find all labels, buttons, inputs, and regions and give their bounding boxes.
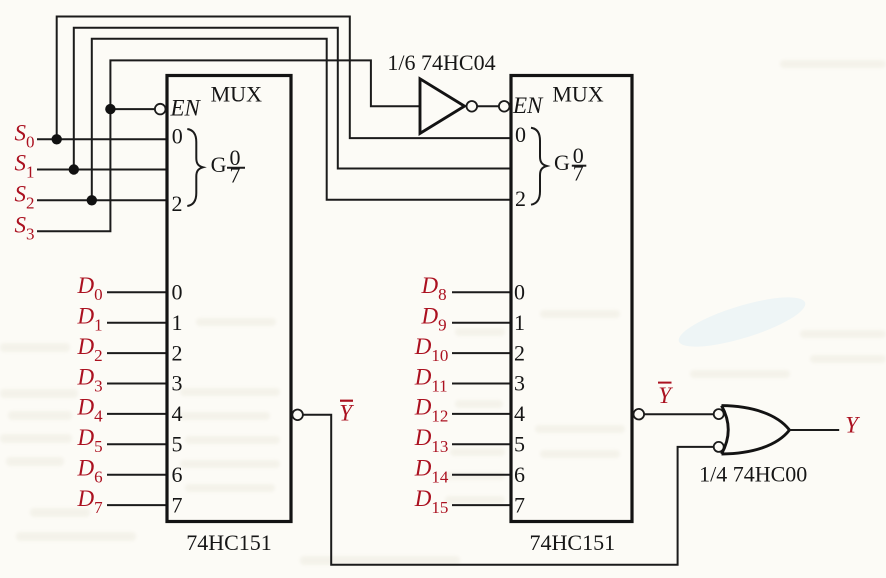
U2 G 0/7 label <box>554 143 586 185</box>
svg-text:0: 0 <box>514 280 525 305</box>
svg-text:MUX: MUX <box>552 82 603 107</box>
wire S2 input stub <box>37 199 166 201</box>
U2 EN bubble <box>499 101 510 112</box>
svg-text:0: 0 <box>172 123 183 148</box>
label D5 <box>77 425 103 456</box>
svg-text:1: 1 <box>172 310 183 335</box>
label 1/6 74HC04 <box>387 50 495 75</box>
svg-text:2: 2 <box>515 186 526 211</box>
U1 part number label 74HC151 <box>186 530 272 555</box>
label D11 <box>414 364 448 395</box>
U1 MUX label <box>211 82 262 107</box>
U2 MUX label <box>552 82 603 107</box>
wire NAND output <box>790 429 840 431</box>
svg-text:6: 6 <box>514 462 525 487</box>
svg-text:1/4 74HC00: 1/4 74HC00 <box>699 462 807 487</box>
wire D10 stub <box>452 352 510 354</box>
svg-text:MUX: MUX <box>211 82 262 107</box>
wire U1 Ybar to NAND lower input <box>303 415 714 565</box>
label D14 <box>414 456 449 487</box>
wire S1 input stub <box>37 169 166 171</box>
U1 G 0/7 label <box>211 145 245 188</box>
U1 data pin labels 0-7 <box>172 280 183 518</box>
U1 EN bubble <box>155 104 166 115</box>
wire S3 branch to U1 EN <box>110 108 154 110</box>
svg-text:3: 3 <box>172 371 183 396</box>
svg-text:7: 7 <box>514 492 525 517</box>
label D4 <box>77 395 104 426</box>
svg-text:5: 5 <box>172 432 183 457</box>
wire D5 stub <box>107 443 166 445</box>
junction S3/EN <box>105 104 115 114</box>
wire S3 run to inverter <box>37 60 420 231</box>
U2 EN pin label <box>512 93 544 118</box>
label S2 <box>15 182 35 213</box>
wire D6 stub <box>107 474 166 476</box>
label D12 <box>414 395 449 426</box>
svg-text:G: G <box>554 150 570 175</box>
wire D9 stub <box>452 322 510 324</box>
label D2 <box>77 334 103 365</box>
label D7 <box>77 486 104 517</box>
U2 data pin labels 0-7 <box>514 280 525 518</box>
label D1 <box>77 304 103 335</box>
label D6 <box>77 456 103 487</box>
label D8 <box>421 273 447 304</box>
label Y (final output) <box>845 412 860 437</box>
wire D3 stub <box>107 383 166 385</box>
svg-text:4: 4 <box>172 401 183 426</box>
wire D13 stub <box>452 443 510 445</box>
inverter U3 (1/6 74HC04) <box>420 79 465 134</box>
mux U2 (74HC151) box <box>511 76 632 522</box>
wire S1 run to U2 pin 1 <box>74 28 510 170</box>
NAND gate U4 input bubble lower <box>714 442 724 452</box>
svg-text:0: 0 <box>515 122 526 147</box>
wire D8 stub <box>452 291 510 293</box>
U1 select brace <box>187 129 203 206</box>
svg-text:74HC151: 74HC151 <box>530 530 616 555</box>
wire S2 run to U2 pin 2 <box>92 39 510 201</box>
svg-text:7: 7 <box>230 163 241 188</box>
label 1/4 74HC00 <box>699 462 807 487</box>
wire D12 stub <box>452 413 510 415</box>
label Ybar (U1 output) <box>339 400 354 425</box>
wire inverter to U2 EN <box>477 105 499 107</box>
svg-text:2: 2 <box>172 191 183 216</box>
svg-text:Y: Y <box>339 400 354 425</box>
svg-text:7: 7 <box>573 160 584 185</box>
wire D14 stub <box>452 474 510 476</box>
label D0 <box>77 273 103 304</box>
label D13 <box>414 425 449 456</box>
svg-text:3: 3 <box>514 371 525 396</box>
U2 select pin 2 label <box>515 186 526 211</box>
svg-text:6: 6 <box>172 462 183 487</box>
junction S2 <box>87 195 97 205</box>
wire D15 stub <box>452 504 510 506</box>
svg-text:2: 2 <box>172 340 183 365</box>
wire U2 Ybar to NAND upper input <box>644 413 714 415</box>
svg-text:1: 1 <box>514 310 525 335</box>
U2 select pin 0 label <box>515 122 526 147</box>
U2 part number label 74HC151 <box>530 530 616 555</box>
label S1 <box>15 151 35 182</box>
label D15 <box>414 486 449 517</box>
wire D0 stub <box>107 291 166 293</box>
wire D1 stub <box>107 322 166 324</box>
U2 select brace <box>531 128 547 205</box>
label D9 <box>421 304 447 335</box>
svg-text:G: G <box>211 152 227 177</box>
label S3 <box>15 212 35 243</box>
label Ybar (U2 output) <box>658 383 673 408</box>
svg-text:Y: Y <box>845 412 860 437</box>
junction S0 <box>52 134 62 144</box>
label D3 <box>77 364 103 395</box>
svg-text:4: 4 <box>514 401 525 426</box>
U1 output bubble <box>292 410 303 421</box>
svg-text:EN: EN <box>512 93 544 118</box>
U1 EN pin label <box>170 95 202 120</box>
svg-text:EN: EN <box>170 95 202 120</box>
svg-text:74HC151: 74HC151 <box>186 530 272 555</box>
svg-text:5: 5 <box>514 432 525 457</box>
svg-text:0: 0 <box>172 280 183 305</box>
U1 select pin 2 label <box>172 191 183 216</box>
NAND gate U4 (1/4 74HC00, negative-OR) input bubble upper <box>714 409 724 419</box>
wire D11 stub <box>452 383 510 385</box>
svg-text:7: 7 <box>172 492 183 517</box>
scan smudge <box>674 287 810 356</box>
wire S0 input stub <box>37 138 166 140</box>
svg-text:2: 2 <box>514 340 525 365</box>
mux U1 (74HC151) box <box>167 76 291 522</box>
label D10 <box>414 334 449 365</box>
inverter U3 output bubble <box>467 101 478 112</box>
junction S1 <box>69 164 79 174</box>
svg-text:Y: Y <box>658 383 673 408</box>
U1 select pin 0 label <box>172 123 183 148</box>
U2 output bubble <box>634 409 645 420</box>
NAND gate U4 body <box>722 406 790 454</box>
wire D4 stub <box>107 413 166 415</box>
svg-text:1/6 74HC04: 1/6 74HC04 <box>387 50 495 75</box>
label S0 <box>15 121 35 152</box>
wire S0 run to U2 pin 0 <box>57 17 510 140</box>
wire D2 stub <box>107 352 166 354</box>
wire D7 stub <box>107 504 166 506</box>
